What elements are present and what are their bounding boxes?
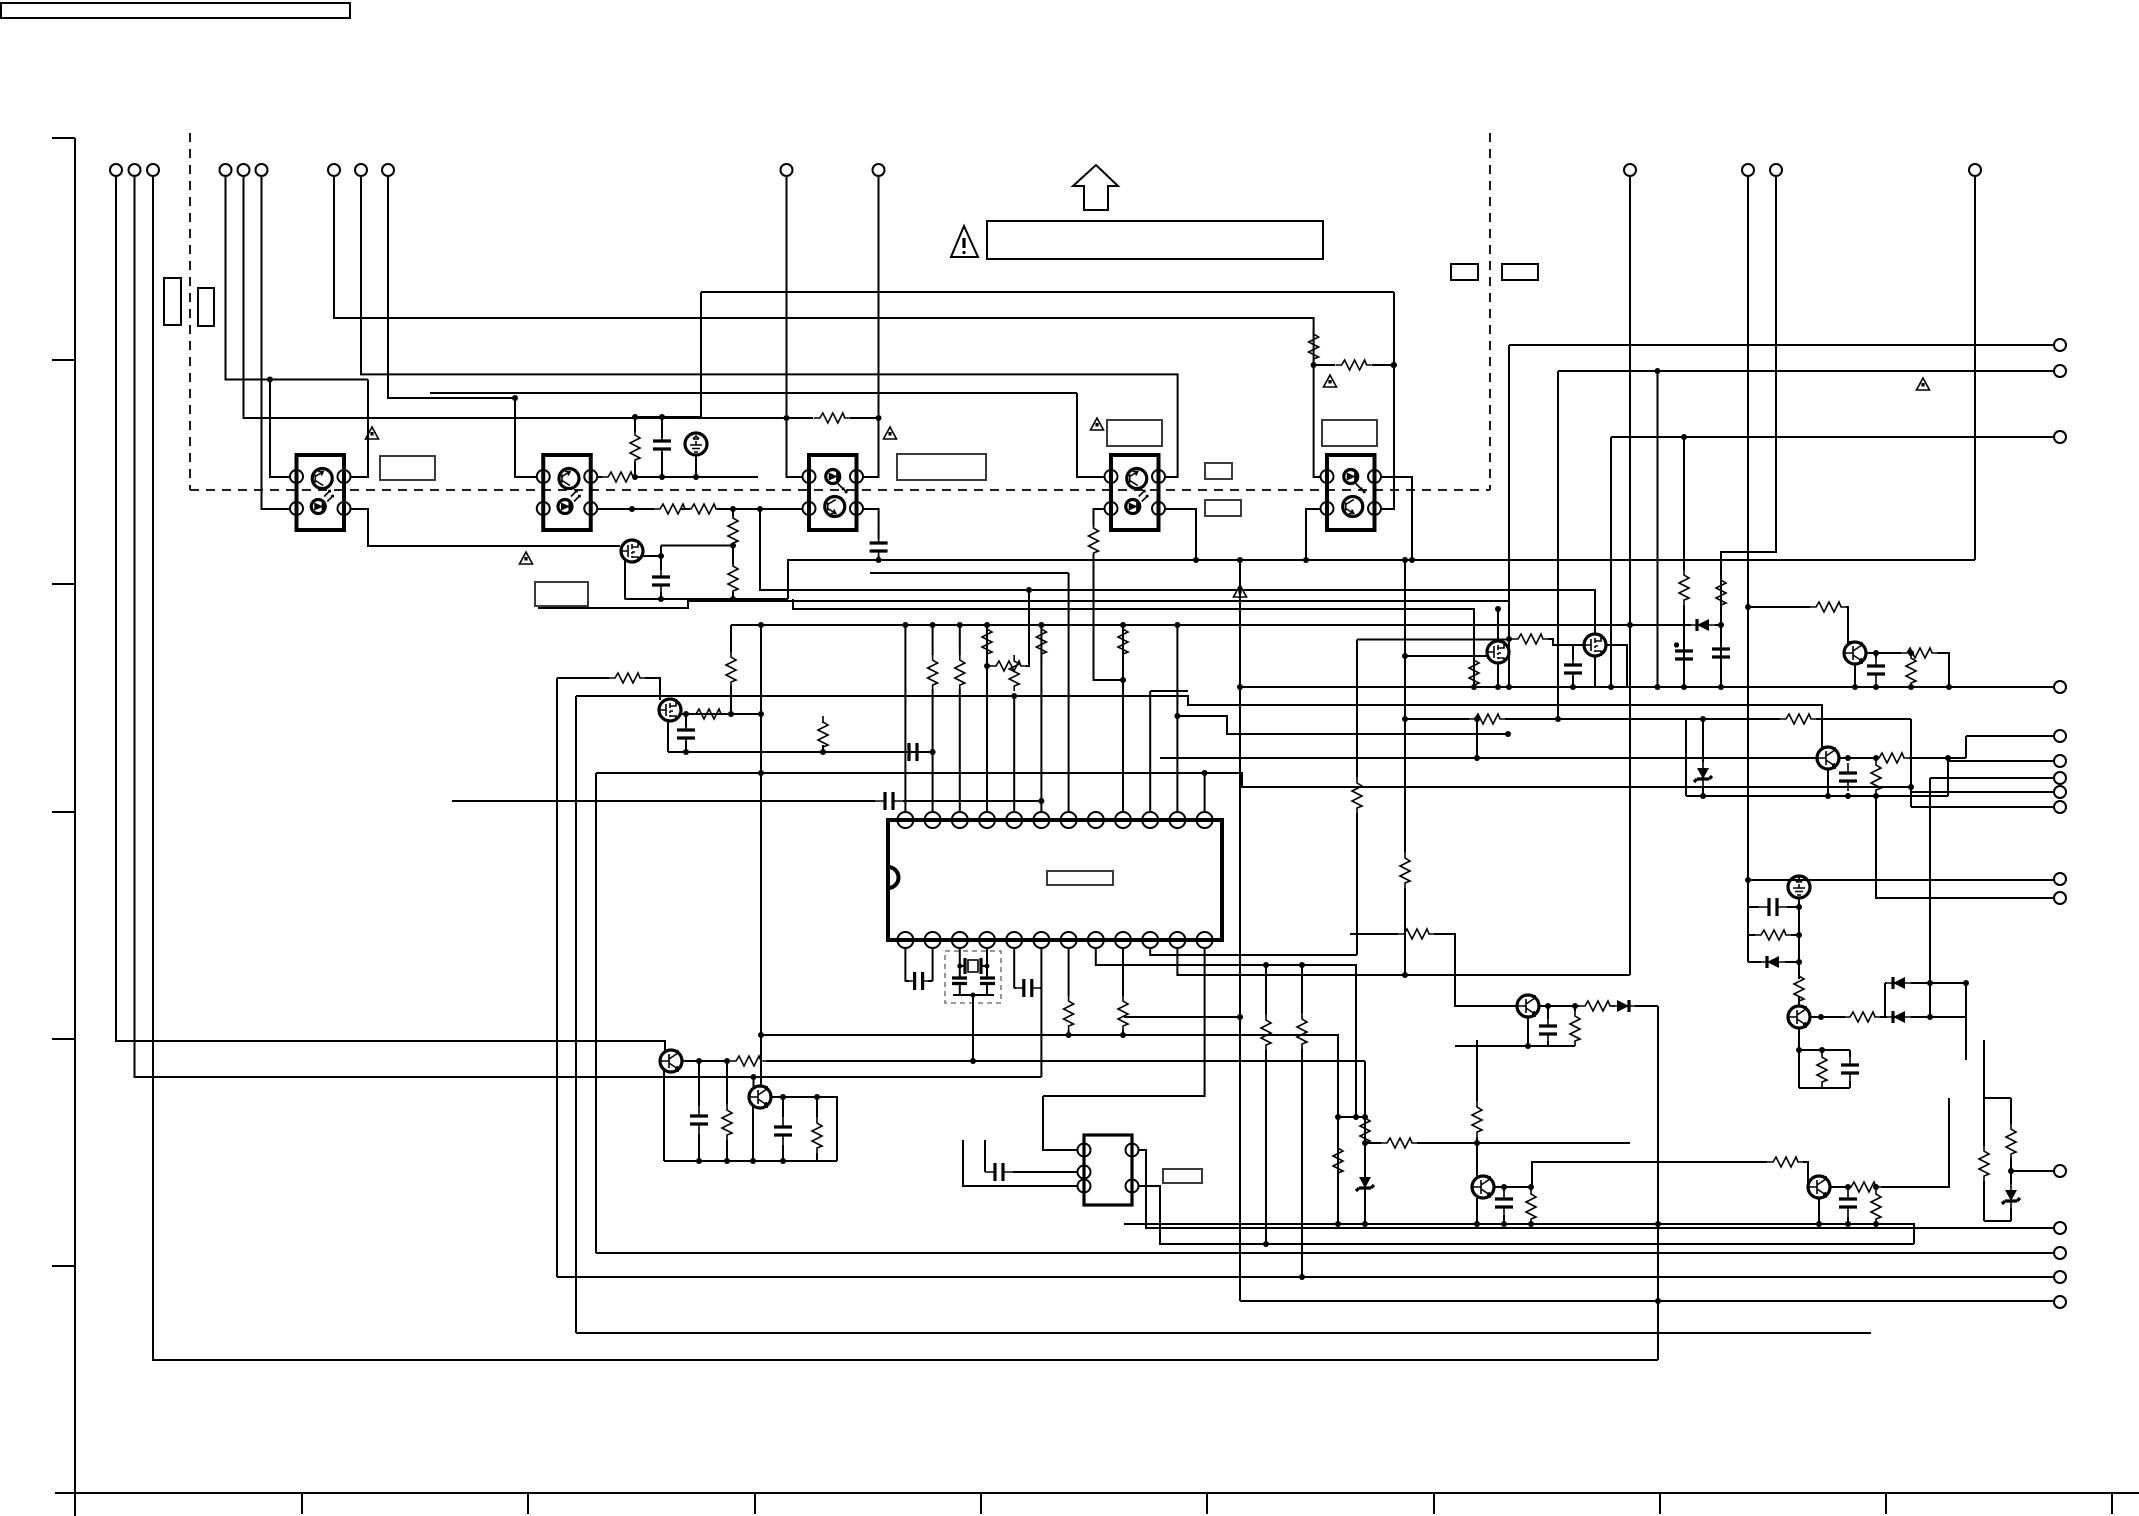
junction (1353, 1114, 1359, 1120)
wire (244, 176, 787, 418)
resistor R26 (1512, 634, 1548, 644)
wire (1124, 1224, 1914, 1244)
junction (512, 395, 518, 401)
resistor R45 (1381, 1138, 1417, 1148)
transistor Q7 (1788, 1006, 1810, 1028)
resistor R12 (609, 673, 645, 683)
junction (1202, 770, 1208, 776)
junction (267, 377, 273, 383)
junction (1402, 557, 1408, 563)
junction (1263, 1241, 1269, 1247)
warning mark (1234, 585, 1247, 597)
wire (788, 560, 1975, 599)
wire (1014, 987, 1041, 989)
resistor R37 (1570, 1010, 1580, 1046)
junction (658, 553, 664, 559)
warning mark (1324, 375, 1337, 387)
junction (1796, 904, 1802, 910)
wire (1747, 880, 1749, 962)
warning mark (1917, 378, 1930, 390)
label box (535, 582, 588, 606)
diode D2 (1761, 956, 1785, 968)
wire (1509, 639, 1584, 645)
wire (682, 1061, 1365, 1224)
diode D1 (1691, 619, 1715, 631)
connector pin J2 (220, 164, 232, 176)
label box (1205, 463, 1232, 479)
resistor R15 (818, 716, 828, 752)
resistor R16 (1333, 1142, 1343, 1178)
junction (1471, 684, 1477, 690)
resistor R31 (1755, 930, 1791, 940)
wire (760, 509, 1595, 634)
wire (596, 773, 1911, 787)
wire (1798, 997, 1800, 1006)
junction (1402, 653, 1408, 659)
junction (1873, 684, 1879, 690)
junction (696, 1158, 702, 1164)
wire (1094, 509, 1124, 680)
junction (1845, 1184, 1851, 1190)
resistor R21 (990, 661, 1026, 671)
transistor Q6 (1817, 747, 1839, 769)
wire (787, 176, 803, 477)
junction (784, 415, 790, 421)
junction (970, 1058, 976, 1064)
wire (1139, 1150, 2054, 1228)
wire (1539, 1006, 1658, 1360)
resistor R34 (1817, 1051, 1827, 1087)
wire (557, 1276, 2054, 1278)
wire (1096, 948, 1356, 1117)
junction (1627, 622, 1633, 628)
junction (1545, 1003, 1551, 1009)
capacitor C4 (652, 567, 670, 595)
resistor R14 (726, 651, 736, 687)
junction (632, 414, 638, 420)
resistor R46 (722, 1104, 732, 1140)
wire (1799, 1028, 1850, 1088)
wire (55, 1493, 2139, 1514)
wire (1702, 719, 1704, 796)
resistor R9 (728, 512, 738, 548)
resistor R8 (654, 504, 690, 514)
wire (863, 176, 879, 477)
diode D3 (1887, 1011, 1911, 1023)
junction (1718, 684, 1724, 690)
junction (1174, 713, 1180, 719)
junction (1237, 684, 1243, 690)
capacitor C9 (1564, 655, 1582, 683)
junction (1335, 1114, 1341, 1120)
junction (1700, 793, 1706, 799)
wire (1830, 1098, 1949, 1187)
junction (876, 557, 882, 563)
wire (1855, 653, 1949, 687)
resistor R47 (812, 1117, 822, 1153)
transistor Q12 (1808, 1176, 1830, 1198)
wire (1266, 965, 1302, 1277)
junction (1908, 784, 1914, 790)
junction (1038, 798, 1044, 804)
wire (959, 625, 961, 812)
wire (1043, 1096, 1077, 1150)
junction (1555, 716, 1561, 722)
MOSFET Q4 (1584, 634, 1606, 656)
wire (596, 1252, 2054, 1254)
resistor R53 (1979, 1145, 1989, 1181)
resistor R42 (1261, 1014, 1271, 1050)
junction (1038, 622, 1044, 628)
connector pin J8 (2054, 681, 2066, 693)
junction (1362, 1140, 1368, 1146)
resistor R39 (1118, 995, 1128, 1031)
label box (1205, 500, 1241, 516)
junction (683, 749, 689, 755)
connector pin J1 (110, 164, 122, 176)
wire (960, 948, 987, 978)
wire (643, 546, 733, 557)
wire (598, 476, 759, 478)
optocoupler PC4 (1105, 455, 1166, 530)
wire (1629, 176, 1631, 975)
protective earth symbol E2 (685, 433, 707, 455)
junction (1963, 980, 1969, 986)
capacitor C18 (690, 1106, 708, 1134)
wire (1984, 1098, 2054, 1221)
wire (1204, 773, 1206, 812)
junction (1066, 1032, 1072, 1038)
junction (1237, 557, 1243, 563)
wire (1381, 477, 1412, 560)
resistor R22 (1009, 655, 1019, 691)
wire (1122, 625, 1124, 812)
wire (1657, 371, 1659, 687)
wire (556, 678, 558, 1277)
wire (116, 176, 665, 1053)
zener diode ZD1 (1694, 762, 1712, 786)
label box (897, 454, 986, 480)
wire (351, 509, 621, 546)
wire (1124, 1016, 1240, 1018)
junction (1402, 972, 1408, 978)
resistor R13 (690, 709, 726, 719)
wire (771, 1097, 837, 1161)
transistor Q10 (749, 1086, 771, 1108)
junction (1655, 368, 1661, 374)
wire (760, 1035, 762, 1086)
wire (732, 509, 734, 599)
resistor R1 (1309, 328, 1319, 364)
junction (1655, 1221, 1661, 1227)
capacitor C21 (1839, 1189, 1857, 1217)
capacitor C12 (1759, 898, 1787, 916)
junction (780, 1094, 786, 1100)
wire (787, 417, 879, 419)
wire (822, 722, 824, 752)
wire (1683, 437, 1685, 687)
resistor R48 (1767, 1157, 1803, 1167)
junction (758, 622, 764, 628)
junction (1193, 557, 1199, 563)
wire (1748, 607, 1855, 642)
transistor Q5 (1844, 642, 1866, 664)
wire (1748, 176, 2054, 880)
title box (1, 3, 350, 18)
resistor R20 (982, 623, 992, 659)
optocoupler PC2 (537, 455, 598, 530)
junction (1681, 434, 1687, 440)
wire (1013, 696, 1015, 812)
junction (1655, 1298, 1661, 1304)
junction (1945, 755, 1951, 761)
wire (430, 393, 1104, 477)
junction (984, 663, 990, 669)
wire (1930, 736, 2054, 1017)
wire (1476, 1040, 1478, 1176)
wire (987, 590, 1029, 666)
wire (1566, 645, 1627, 687)
junction (971, 993, 976, 998)
resistor R24 (1118, 623, 1128, 659)
junction (2008, 1168, 2014, 1174)
resistor R50 (1472, 1101, 1482, 1137)
label box (1107, 420, 1162, 446)
capacitor C19 (774, 1117, 792, 1145)
zener diode ZD2 (1356, 1171, 1374, 1195)
wire (701, 292, 1394, 509)
wire (361, 176, 1178, 477)
wire (1364, 1148, 1366, 1162)
junction (1474, 1221, 1480, 1227)
resistor R27 (1901, 648, 1937, 658)
wire (1974, 176, 1976, 560)
capacitor C6 (899, 743, 927, 761)
junction (1525, 1043, 1531, 1049)
MOSFET Q1 (621, 540, 643, 562)
resistor R6 (630, 429, 640, 465)
junction (1303, 557, 1309, 563)
optocoupler PC3 (803, 455, 864, 530)
label box (1163, 1169, 1202, 1183)
connector pin J10 (2054, 786, 2066, 798)
wire (1810, 983, 1966, 1017)
resistor R43 (730, 1056, 766, 1066)
junction (1011, 693, 1017, 699)
wire (985, 1140, 1077, 1172)
capacitor C5 (677, 720, 695, 748)
MOSFET Q2 (659, 699, 681, 721)
wire (1983, 1040, 1985, 1098)
wire (1848, 1187, 1876, 1224)
junction (1506, 636, 1512, 642)
wire (557, 678, 660, 700)
wire (262, 176, 291, 509)
resistor R18 (928, 654, 938, 690)
wire (1476, 1198, 1478, 1224)
resistor R7 (602, 472, 638, 482)
MOSFET Q3 (1487, 641, 1509, 663)
wire (1139, 1186, 1914, 1244)
wire (576, 696, 1828, 747)
wire (679, 713, 761, 715)
resistor R49 (1526, 1188, 1536, 1224)
wire (1150, 640, 1509, 956)
diode D5 (1611, 1000, 1635, 1012)
junction (1718, 622, 1724, 628)
resistor R10 (1089, 522, 1099, 558)
warning mark (1091, 418, 1104, 430)
junction (1174, 622, 1180, 628)
junction (957, 964, 962, 969)
resistor R25 (1679, 569, 1689, 605)
junction (1745, 604, 1751, 610)
wire (1177, 560, 1630, 975)
junction (1026, 587, 1032, 593)
wire (1240, 686, 2054, 688)
wire (953, 984, 994, 1062)
wire (635, 417, 701, 477)
wire (1073, 165, 1118, 210)
transistor Q11 (1472, 1176, 1494, 1198)
wire (575, 696, 577, 1333)
capacitor C17 (985, 1163, 1013, 1181)
wire (153, 176, 1658, 1360)
junction (1505, 731, 1511, 737)
junction (1873, 650, 1879, 656)
wire (595, 773, 597, 1253)
resistor R17 (1469, 714, 1505, 724)
junction (730, 596, 736, 602)
junction (1120, 1032, 1126, 1038)
connector pin J9 (2054, 730, 2066, 742)
wire (1150, 691, 1188, 812)
wire (960, 965, 987, 967)
wire (1040, 988, 1042, 1077)
junction (876, 415, 882, 421)
junction (1818, 1014, 1824, 1020)
resistor R28 (1906, 652, 1916, 688)
resistor R19 (955, 654, 965, 690)
resistor R29 (1873, 753, 1909, 763)
wire (904, 625, 906, 812)
junction (696, 1058, 702, 1064)
resistor R30 (1871, 759, 1881, 795)
wire (598, 508, 803, 510)
junction (1745, 877, 1751, 883)
wire (334, 176, 1321, 477)
wire (1405, 655, 1487, 657)
wire (1798, 898, 1800, 979)
junction (1501, 1221, 1507, 1227)
wire (1965, 983, 1967, 1060)
capacitor C1 (1712, 639, 1730, 667)
wire (452, 800, 1041, 802)
junction (683, 711, 689, 717)
wire (1455, 1006, 1575, 1046)
wire (1122, 948, 1124, 1035)
wire (1497, 663, 1499, 687)
junction (1474, 716, 1480, 722)
junction (1120, 677, 1126, 683)
junction (658, 596, 664, 602)
junction (1845, 755, 1851, 761)
wire (793, 599, 1474, 687)
resistor R2 (1336, 360, 1372, 370)
wire (870, 573, 1069, 812)
junction (758, 770, 764, 776)
junction (1311, 362, 1317, 368)
capacitor C16 (1014, 979, 1042, 997)
wire (135, 176, 1042, 1077)
junction (1474, 1140, 1480, 1146)
wire (1686, 795, 1948, 797)
resistor R36 (1579, 1001, 1615, 1011)
connector pin J13 (2054, 1222, 2066, 1234)
junction (629, 506, 635, 512)
resistor R32 (1794, 970, 1804, 1006)
wire (1611, 437, 2054, 687)
capacitor C14 (1539, 1016, 1557, 1044)
diode D4 (1887, 977, 1911, 989)
wire (1043, 948, 1205, 1096)
junction (1845, 793, 1851, 799)
junction (632, 474, 638, 480)
capacitor C15 (905, 972, 933, 990)
capacitor C8 (1675, 641, 1693, 669)
resistor R54 (2006, 1123, 2016, 1159)
wire (1350, 934, 1517, 1006)
junction (1335, 1221, 1341, 1227)
connector pin J7 (2054, 339, 2066, 351)
resistor R3 (814, 413, 850, 423)
wire (753, 1077, 755, 1087)
junction (1845, 1221, 1851, 1227)
wire (668, 714, 933, 752)
connector pin J3 (328, 164, 340, 176)
resistor R4 (1810, 602, 1846, 612)
wire (1911, 792, 2054, 807)
capacitor C2 (653, 431, 671, 459)
resistor R35 (1398, 929, 1434, 939)
wire (863, 509, 879, 560)
wire (1818, 1198, 1820, 1224)
connector pin J5 (1624, 164, 1636, 176)
resistor R51 (1845, 1182, 1881, 1192)
junction (1501, 1184, 1507, 1190)
capacitor C7 (875, 792, 903, 810)
connector pin J6 (1969, 164, 1981, 176)
wire (625, 556, 789, 599)
resistor R5 (1716, 574, 1726, 610)
label box (1322, 420, 1377, 446)
wire (1509, 345, 2054, 687)
warning mark (884, 427, 897, 439)
wire (388, 176, 537, 477)
transistor Q9 (660, 1050, 682, 1072)
resistor R33 (1844, 1012, 1880, 1022)
junction (1819, 1047, 1825, 1053)
warning mark (520, 552, 533, 564)
wire (1306, 509, 1321, 560)
junction (1391, 362, 1397, 368)
capacitor C3 (870, 533, 888, 561)
wire (986, 625, 988, 812)
wire (699, 1061, 727, 1161)
capacitor C13 (1841, 1055, 1859, 1083)
warning mark (366, 427, 379, 439)
wire (932, 625, 934, 812)
